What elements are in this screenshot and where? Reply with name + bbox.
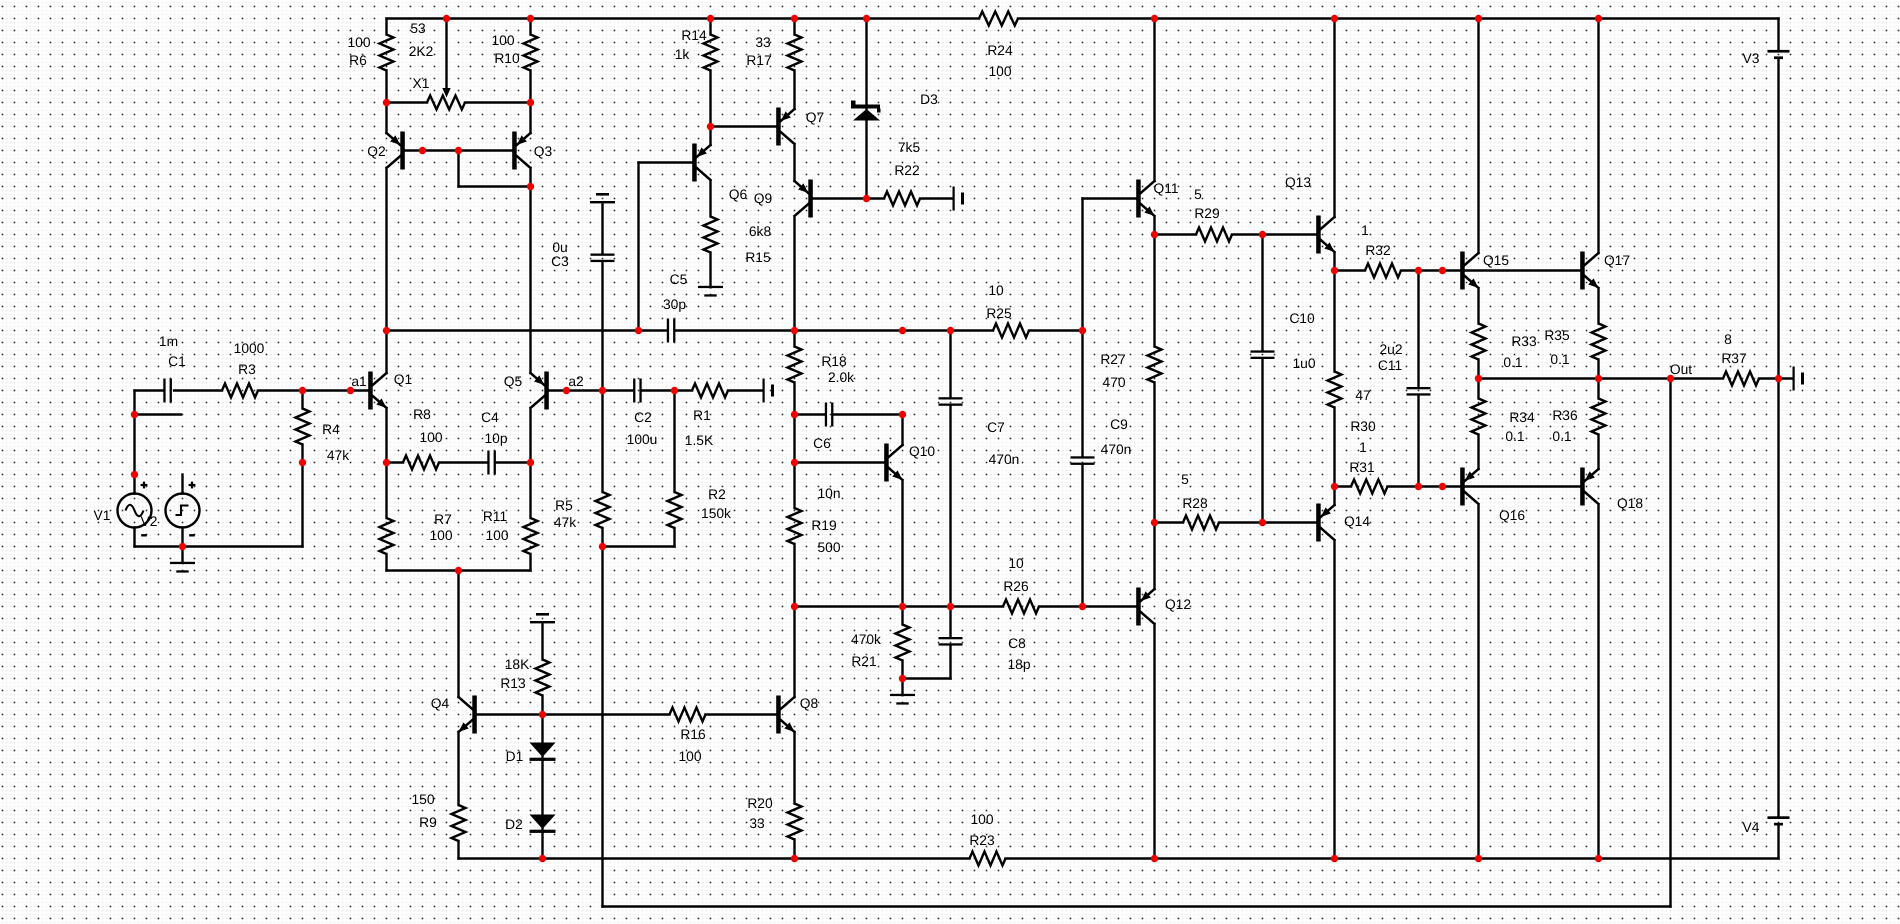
svg-text:R28: R28: [1182, 496, 1208, 511]
svg-text:R6: R6: [349, 53, 367, 68]
svg-text:R9: R9: [419, 815, 437, 830]
svg-text:100: 100: [347, 35, 370, 50]
svg-text:100: 100: [419, 430, 442, 445]
svg-text:8: 8: [1724, 332, 1732, 347]
svg-text:Q18: Q18: [1617, 496, 1643, 511]
svg-text:0.1: 0.1: [1503, 355, 1522, 370]
svg-text:D3: D3: [920, 92, 938, 107]
svg-text:Q8: Q8: [800, 696, 819, 711]
svg-text:10: 10: [1008, 556, 1024, 571]
svg-text:V4: V4: [1743, 820, 1760, 835]
svg-text:Q12: Q12: [1165, 597, 1191, 612]
svg-text:X1: X1: [413, 76, 430, 91]
svg-text:Q4: Q4: [431, 696, 450, 711]
svg-text:100: 100: [988, 64, 1011, 79]
svg-text:30p: 30p: [663, 297, 686, 312]
svg-text:10p: 10p: [484, 431, 507, 446]
svg-text:6k8: 6k8: [749, 224, 772, 239]
svg-text:2u2: 2u2: [1379, 342, 1402, 357]
svg-text:10n: 10n: [817, 486, 840, 501]
svg-text:0u: 0u: [552, 240, 567, 255]
svg-text:100: 100: [491, 33, 514, 48]
svg-text:R30: R30: [1350, 419, 1376, 434]
svg-text:R8: R8: [413, 407, 431, 422]
svg-text:R32: R32: [1365, 243, 1390, 258]
svg-text:Q7: Q7: [806, 110, 824, 125]
svg-text:Q3: Q3: [534, 144, 553, 159]
svg-text:470k: 470k: [851, 632, 881, 647]
svg-text:R18: R18: [821, 354, 847, 369]
svg-text:R21: R21: [851, 654, 876, 669]
svg-text:R29: R29: [1194, 206, 1220, 221]
svg-text:R20: R20: [747, 796, 773, 811]
svg-text:5: 5: [1181, 472, 1189, 487]
svg-text:2.0k: 2.0k: [828, 370, 854, 385]
svg-text:R36: R36: [1552, 408, 1578, 423]
svg-text:Q5: Q5: [504, 374, 523, 389]
svg-text:R2: R2: [708, 487, 726, 502]
svg-text:R26: R26: [1003, 579, 1029, 594]
svg-text:a2: a2: [568, 374, 583, 389]
svg-text:10: 10: [988, 283, 1004, 298]
svg-text:1000: 1000: [234, 341, 265, 356]
svg-text:150: 150: [411, 792, 434, 807]
svg-text:Q11: Q11: [1153, 181, 1178, 196]
svg-text:150k: 150k: [701, 506, 731, 521]
svg-text:C11: C11: [1378, 358, 1402, 373]
svg-text:53: 53: [410, 21, 426, 36]
svg-text:0.1: 0.1: [1550, 352, 1569, 367]
svg-text:V3: V3: [1743, 51, 1760, 66]
svg-text:33: 33: [749, 816, 765, 831]
svg-text:33: 33: [755, 35, 771, 50]
svg-text:1u0: 1u0: [1292, 356, 1315, 371]
svg-text:R7: R7: [434, 512, 452, 527]
svg-text:V1: V1: [94, 508, 111, 523]
svg-text:C5: C5: [670, 272, 688, 287]
svg-text:0.1: 0.1: [1505, 429, 1524, 444]
svg-text:2K2: 2K2: [409, 44, 434, 59]
svg-text:R1: R1: [693, 408, 711, 423]
svg-text:D2: D2: [505, 817, 523, 832]
svg-text:1m: 1m: [159, 334, 178, 349]
svg-text:470: 470: [1102, 375, 1125, 390]
svg-text:R23: R23: [969, 833, 995, 848]
svg-text:C8: C8: [1008, 636, 1026, 651]
svg-text:Q13: Q13: [1285, 175, 1311, 190]
svg-text:R5: R5: [555, 498, 573, 513]
svg-text:R22: R22: [894, 163, 919, 178]
svg-text:R3: R3: [238, 362, 256, 377]
svg-text:C6: C6: [813, 436, 831, 451]
svg-text:R16: R16: [680, 727, 706, 742]
svg-text:470n: 470n: [989, 452, 1020, 467]
svg-text:18K: 18K: [505, 657, 530, 672]
svg-text:R19: R19: [811, 518, 837, 533]
svg-text:Q9: Q9: [754, 191, 773, 206]
svg-text:Out: Out: [1670, 362, 1692, 377]
svg-text:R13: R13: [500, 676, 526, 691]
svg-text:D1: D1: [506, 749, 524, 764]
svg-text:470n: 470n: [1101, 442, 1132, 457]
svg-text:C9: C9: [1110, 417, 1128, 432]
svg-text:47: 47: [1355, 388, 1370, 403]
svg-text:C1: C1: [168, 354, 186, 369]
svg-text:C10: C10: [1289, 311, 1315, 326]
svg-text:Q14: Q14: [1344, 514, 1370, 529]
svg-text:R37: R37: [1721, 351, 1746, 366]
svg-text:R11: R11: [483, 509, 507, 524]
svg-text:R35: R35: [1544, 328, 1570, 343]
svg-text:C7: C7: [987, 420, 1005, 435]
svg-text:R27: R27: [1100, 352, 1125, 367]
svg-text:C3: C3: [551, 254, 569, 269]
svg-text:100: 100: [678, 749, 701, 764]
svg-text:Q6: Q6: [729, 187, 748, 202]
svg-text:47k: 47k: [554, 515, 576, 530]
svg-text:0.1: 0.1: [1552, 429, 1571, 444]
svg-text:R33: R33: [1511, 334, 1537, 349]
svg-text:R10: R10: [494, 51, 520, 66]
svg-text:1: 1: [1359, 440, 1367, 455]
svg-text:18p: 18p: [1007, 657, 1030, 672]
svg-text:R34: R34: [1509, 410, 1535, 425]
svg-text:R14: R14: [681, 28, 707, 43]
svg-text:1: 1: [1361, 223, 1369, 238]
svg-text:100u: 100u: [627, 432, 658, 447]
svg-text:R15: R15: [745, 250, 771, 265]
svg-text:Q16: Q16: [1499, 508, 1525, 523]
svg-text:1k: 1k: [675, 47, 690, 62]
svg-text:47k: 47k: [327, 448, 349, 463]
svg-text:R17: R17: [746, 53, 771, 68]
svg-text:100: 100: [970, 812, 993, 827]
svg-text:V2: V2: [141, 514, 158, 529]
svg-text:C4: C4: [481, 410, 499, 425]
svg-text:100: 100: [429, 528, 452, 543]
svg-text:500: 500: [817, 540, 840, 555]
svg-text:C2: C2: [634, 410, 652, 425]
svg-text:R25: R25: [986, 306, 1012, 321]
svg-text:Q2: Q2: [367, 144, 385, 159]
svg-text:R4: R4: [322, 422, 340, 437]
svg-text:Q1: Q1: [394, 372, 412, 387]
svg-text:1.5K: 1.5K: [685, 433, 714, 448]
svg-text:Q15: Q15: [1483, 253, 1509, 268]
svg-text:R24: R24: [987, 43, 1013, 58]
svg-text:5: 5: [1194, 187, 1202, 202]
svg-text:Q10: Q10: [909, 444, 935, 459]
svg-text:7k5: 7k5: [898, 140, 921, 155]
svg-text:100: 100: [485, 528, 508, 543]
svg-text:a1: a1: [351, 374, 366, 389]
svg-text:R31: R31: [1349, 460, 1374, 475]
svg-text:Q17: Q17: [1604, 253, 1630, 268]
